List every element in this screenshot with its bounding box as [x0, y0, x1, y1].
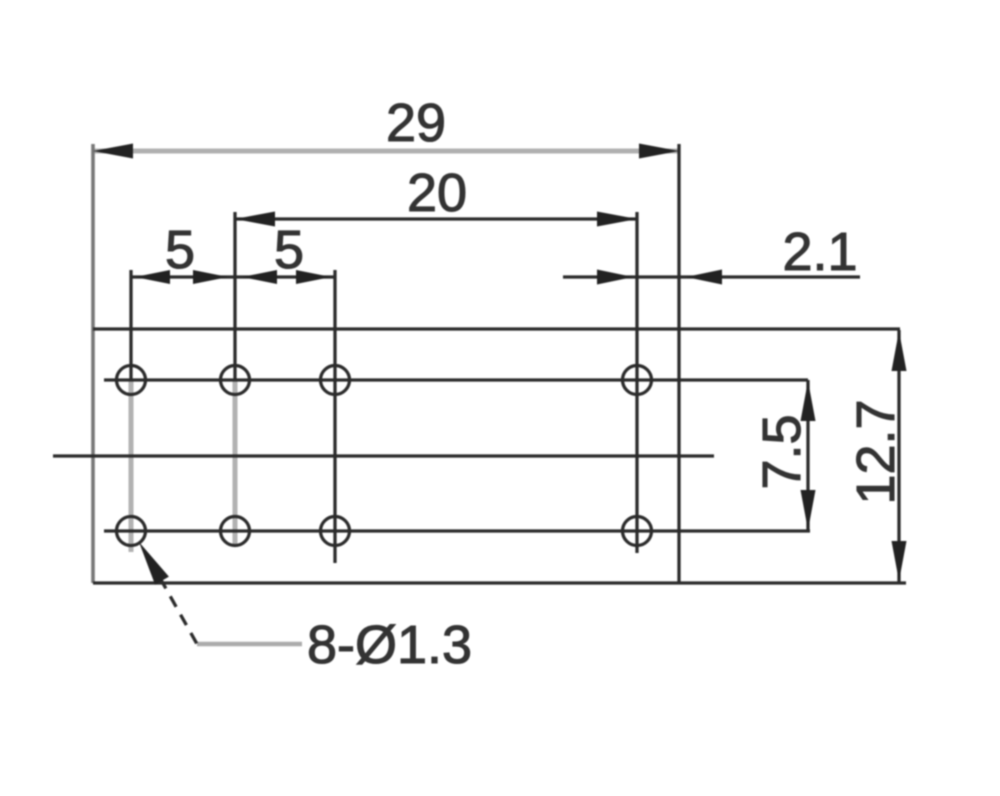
svg-text:20: 20: [407, 163, 467, 223]
svg-text:5: 5: [165, 220, 195, 280]
svg-text:12.7: 12.7: [846, 399, 906, 504]
svg-text:29: 29: [386, 93, 446, 153]
svg-text:8-Ø1.3: 8-Ø1.3: [307, 615, 472, 675]
svg-text:2.1: 2.1: [782, 222, 857, 282]
svg-text:5: 5: [274, 220, 304, 280]
svg-text:7.5: 7.5: [752, 414, 812, 489]
